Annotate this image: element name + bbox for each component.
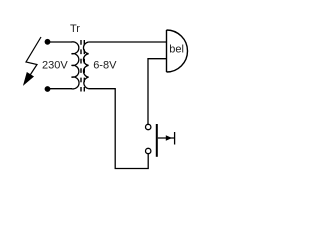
wire: bell lower terminal to push button: [148, 59, 166, 124]
transformer Tr secondary winding (6-8V side): [83, 42, 88, 89]
wire: primary bottom: [48, 88, 73, 90]
mains arrowhead: [24, 73, 34, 86]
svg-text:bel: bel: [169, 43, 184, 55]
node: primary top terminal: [45, 39, 51, 45]
svg-text:6-8V: 6-8V: [93, 60, 117, 72]
bell (half-circle body): [167, 30, 188, 72]
push button: bottom terminal circle: [146, 148, 151, 153]
transformer Tr primary winding (230V side): [72, 42, 80, 89]
push button: movable contact bar: [156, 124, 158, 157]
wire: push button bottom to transformer secondary (return path): [89, 89, 149, 169]
push button: actuator rod: [158, 137, 174, 139]
push button: top terminal circle: [146, 124, 151, 129]
push button: actuator end bar: [174, 132, 176, 145]
transformer core (dashed lines): [80, 40, 82, 92]
wire: secondary top to bell: [89, 41, 166, 43]
node: primary bottom terminal: [45, 86, 51, 92]
push button: actuator arrowhead: [166, 135, 172, 141]
svg-text:Tr: Tr: [70, 23, 80, 35]
svg-text:230V: 230V: [42, 60, 68, 72]
wire: primary top: [48, 41, 73, 43]
mains supply arrow (lightning bolt): [26, 37, 41, 78]
